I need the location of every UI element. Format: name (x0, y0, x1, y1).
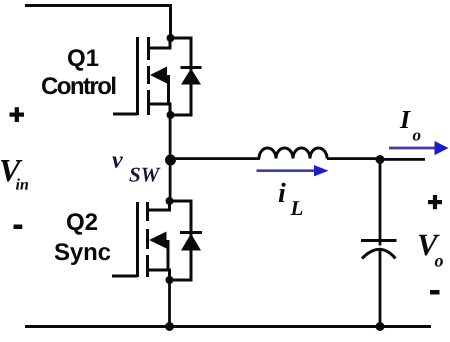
label Control (42, 77, 115, 95)
transistor Q1 (113, 37, 170, 115)
wire bottom return rail (25, 325, 431, 328)
node bottom left junction (165, 322, 174, 331)
wire output node down to capacitor (379, 160, 382, 246)
node capacitor bottom junction (376, 322, 385, 331)
current arrow iL (257, 165, 329, 176)
wire output stub to the right (380, 158, 425, 161)
wire Q1 source to Q2 drain through switch node (169, 115, 172, 201)
capacitor C curved bottom plate (362, 249, 396, 258)
node switch node vSW (165, 155, 176, 166)
label minus of Vin (14, 225, 23, 230)
transistor Q2 (112, 201, 170, 280)
label Q2 (67, 213, 97, 235)
label Vo (419, 235, 440, 256)
node Q2 drain junction (166, 197, 174, 205)
label Vin (1, 160, 23, 182)
label Io (400, 111, 411, 128)
capacitor C top plate (361, 239, 397, 242)
wire Q2 source to ground rail (168, 280, 171, 326)
body diode of Q1 (170, 38, 202, 115)
current arrow Io (389, 141, 449, 155)
wire inductor to output node (327, 157, 380, 160)
wire top rail from Vin+ to Q1 drain (25, 4, 172, 38)
node Q1 source junction (167, 111, 175, 119)
body diode of Q2 (170, 201, 203, 280)
inductor L (259, 148, 327, 159)
node Q1 drain junction (167, 34, 175, 42)
node Q2 source junction (166, 276, 174, 284)
wire capacitor to bottom rail (379, 250, 382, 326)
label Q1 (68, 49, 98, 70)
label minus of Vo (430, 290, 440, 295)
label Sync (55, 243, 111, 265)
label iL (279, 183, 286, 202)
label vSW (112, 157, 123, 168)
label plus of Vo (428, 200, 442, 204)
label plus of Vin (10, 113, 25, 117)
wire switch node to inductor (170, 157, 260, 160)
node output junction (376, 155, 385, 164)
